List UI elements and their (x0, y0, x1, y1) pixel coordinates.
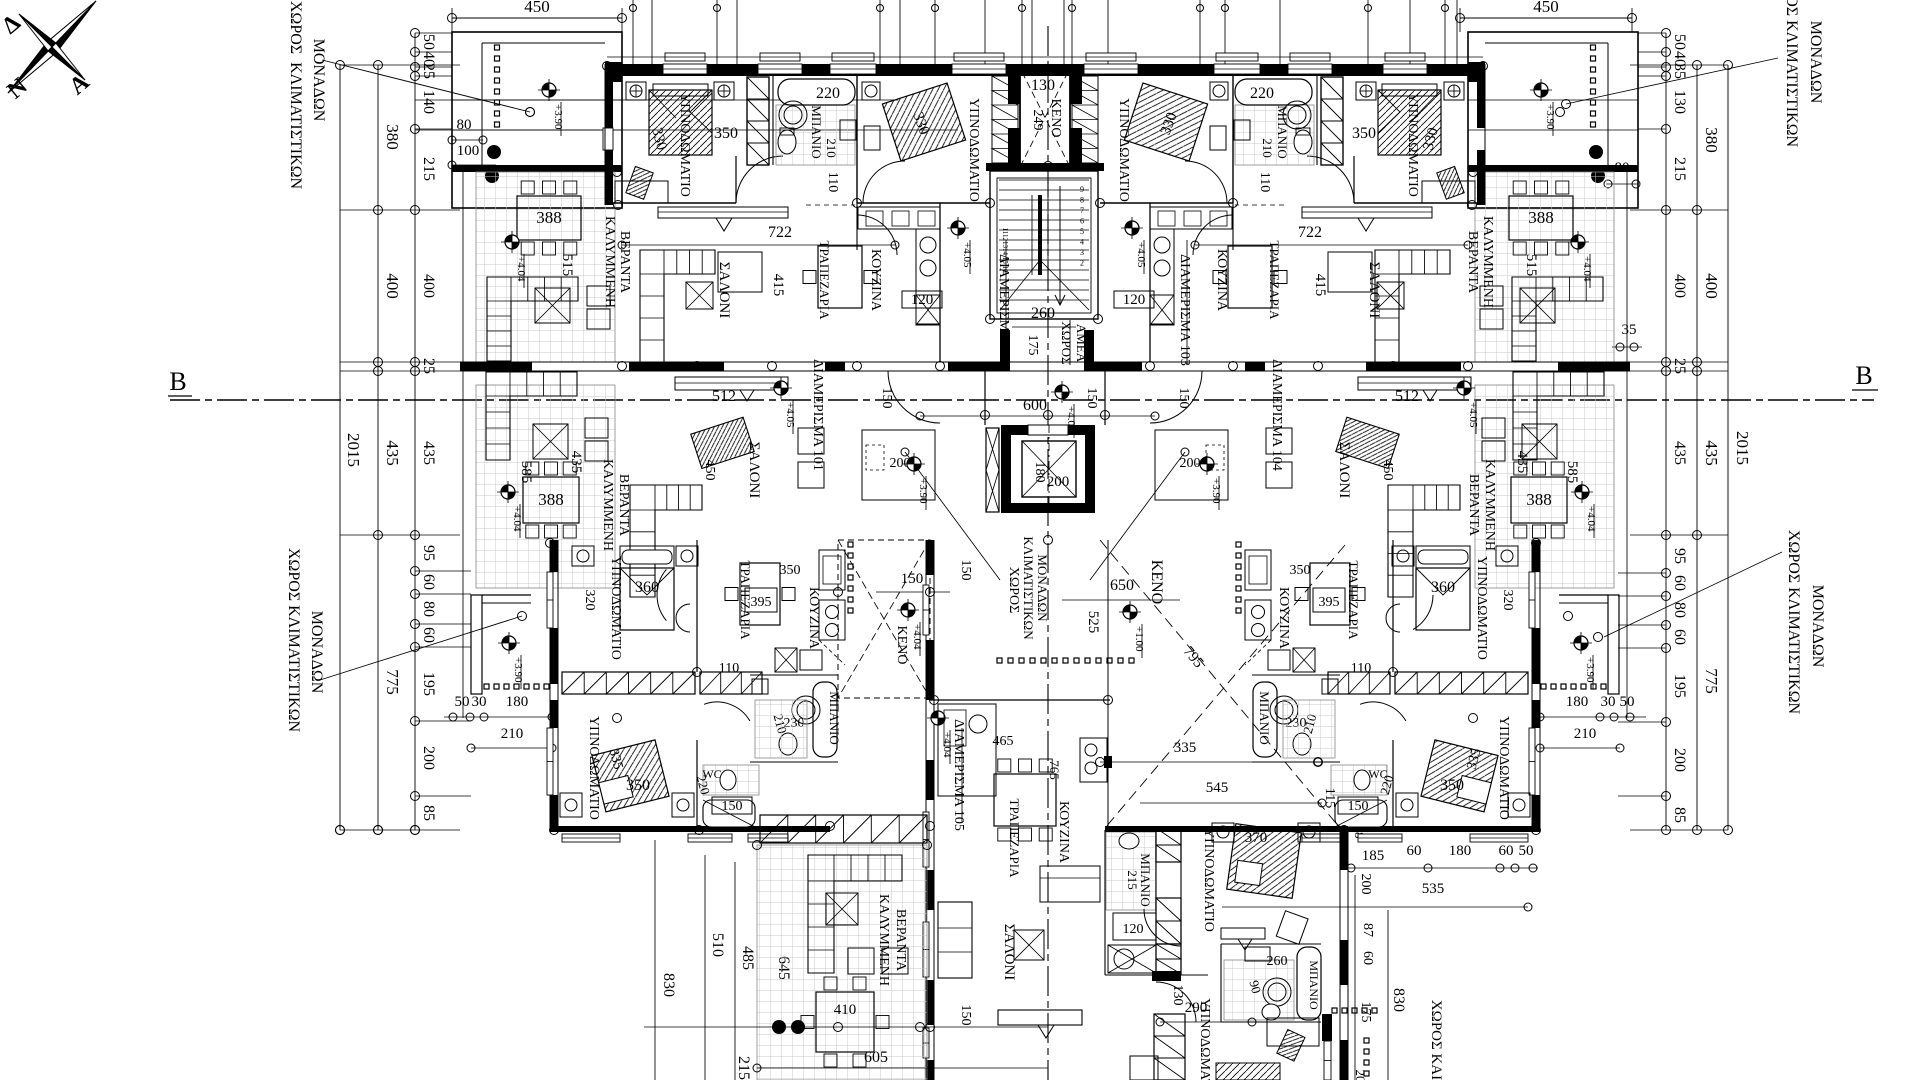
AC block bottom wall R (1468, 165, 1638, 172)
apt101 L tv wall 512 (675, 377, 788, 390)
svg-text:115: 115 (1322, 788, 1337, 808)
wc R (1252, 761, 1340, 763)
svg-text:388: 388 (1526, 490, 1552, 509)
black dots L (487, 145, 501, 159)
svg-text:85: 85 (1671, 807, 1688, 823)
svg-text:180: 180 (1449, 843, 1472, 859)
svg-text:ΔΙΑΜΕΡΙΣΜΑ 103: ΔΙΑΜΕΡΙΣΜΑ 103 (1177, 254, 1192, 366)
AC block bottom wall L (452, 165, 622, 172)
svg-text:+3.90: +3.90 (512, 657, 524, 683)
svg-text:50: 50 (420, 34, 437, 50)
svg-text:200: 200 (1358, 874, 1373, 895)
stair arrow (1055, 186, 1065, 305)
tv bench apt102 R (1302, 207, 1432, 218)
svg-text:585: 585 (1564, 461, 1580, 484)
bedroom-up R bedsides (1496, 546, 1518, 566)
svg-text:ΧΩΡΟΣ ΚΛΙΜΑΤΙΣΤΙΚΩΝ: ΧΩΡΟΣ ΚΛΙΜΑΤΙΣΤΙΚΩΝ (1783, 0, 1800, 148)
svg-text:+3.90: +3.90 (1210, 478, 1222, 504)
svg-text:ΚΟΥΖΙΝΑ: ΚΟΥΖΙΝΑ (868, 249, 883, 312)
arc doors bottom right (1144, 909, 1181, 946)
apt105 bed room divider (1105, 974, 1208, 976)
apt101 R art (1336, 417, 1399, 468)
svg-text:ΣΑΛΟΝΙ: ΣΑΛΟΝΙ (716, 262, 732, 318)
apt101 L art (691, 417, 754, 468)
svg-text:25: 25 (420, 358, 437, 374)
svg-text:ΚΑΛΥΜΜΕΝΗ: ΚΑΛΥΜΜΕΝΗ (602, 216, 617, 308)
kitchen L dim 120 box (902, 291, 942, 308)
bath1 L tiles (776, 105, 855, 165)
wardrobe R bedroom1 (1321, 77, 1343, 165)
svg-text:ΚΑΛΥΜΜΕΝΗ: ΚΑΛΥΜΜΕΝΗ (1482, 459, 1497, 551)
svg-text:ΥΠΝΟΔΩΜΑΤΙΟ: ΥΠΝΟΔΩΜΑΤΙΟ (1116, 98, 1131, 202)
vertical axis centre line (1047, 26, 1049, 1080)
apt105 bath small (1104, 830, 1106, 975)
svg-text:ΜΟΝΑΔΩΝ: ΜΟΝΑΔΩΝ (1035, 554, 1050, 622)
salon apt102 R sofa (1375, 250, 1450, 362)
svg-text:210: 210 (824, 138, 839, 158)
terrace upper L dining table 388 (517, 196, 581, 240)
svg-text:260: 260 (1031, 305, 1055, 322)
svg-text:350: 350 (780, 563, 801, 578)
wing bottom wall R (1260, 826, 1540, 832)
svg-text:130: 130 (1671, 90, 1688, 114)
bath1 R tub 220 (1235, 79, 1312, 105)
svg-text:120: 120 (1123, 292, 1146, 308)
svg-text:260: 260 (1267, 954, 1288, 969)
svg-text:80: 80 (420, 601, 437, 617)
bedroom1 L bedside tables (626, 82, 646, 100)
svg-text:6: 6 (1080, 217, 1084, 226)
svg-text:450: 450 (524, 0, 550, 16)
svg-text:ΥΠΝΟΔΩΜΑΤΙΟ: ΥΠΝΟΔΩΜΑΤΙΟ (1496, 716, 1511, 820)
svg-text:435: 435 (420, 441, 437, 465)
svg-text:150: 150 (1084, 388, 1099, 409)
svg-text:220: 220 (1250, 85, 1274, 102)
svg-text:110: 110 (1257, 172, 1272, 192)
svg-text:ΜΠΑΝΙΟ: ΜΠΑΝΙΟ (1275, 105, 1290, 158)
svg-text:110: 110 (719, 661, 739, 676)
right chain extenders (1630, 64, 1728, 66)
svg-text:2: 2 (1080, 259, 1084, 268)
svg-text:25: 25 (1671, 358, 1688, 374)
left gable wall (605, 64, 613, 128)
left chain 2015 label (336, 61, 345, 70)
entry wall y362 thick segments (460, 361, 1630, 363)
right chain A (1693, 61, 1702, 70)
AC terrace block top L (452, 32, 622, 208)
svg-text:ΜΟΝΑΔΩΝ: ΜΟΝΑΔΩΝ (1807, 21, 1824, 104)
wall junction node circles (618, 362, 627, 371)
svg-text:150: 150 (958, 1005, 973, 1026)
svg-text:ΚΕΝΟ: ΚΕΝΟ (1148, 560, 1165, 604)
stair hatch band left (992, 76, 1018, 163)
svg-text:370: 370 (1245, 830, 1268, 846)
svg-text:220: 220 (816, 85, 840, 102)
svg-text:130: 130 (1031, 77, 1055, 94)
stair cross line (1000, 260, 1040, 310)
svg-text:775: 775 (1702, 668, 1721, 694)
elevator shaft (1001, 425, 1095, 435)
bedroom-low L bed 350 (592, 740, 669, 812)
apt101 L near-core room 200 (862, 430, 935, 500)
terrace R mid wall stub (1558, 362, 1630, 371)
terrace upper L sofa (487, 277, 578, 361)
apt101 L sofa (630, 485, 702, 597)
svg-text:180: 180 (1566, 694, 1589, 710)
svg-text:ΚΑΛΥΜΜΕΝΗ: ΚΑΛΥΜΜΕΝΗ (1480, 216, 1495, 308)
terrace lower L dining table 388 (523, 477, 579, 523)
svg-text:B: B (169, 367, 186, 396)
level marker +3.90 block R (1534, 83, 1548, 97)
svg-text:140: 140 (420, 90, 437, 114)
svg-text:110: 110 (825, 172, 840, 192)
bedroom2 R bedside (1210, 82, 1228, 100)
terrace lower R tiles (1475, 385, 1614, 588)
svg-text:ΥΠΝΟΔΩΜΑΤΙΟ: ΥΠΝΟΔΩΜΑΤΙΟ (677, 93, 692, 197)
bath1 R shower circle (1283, 101, 1311, 129)
kitchen apt101 R column (1245, 550, 1271, 590)
svg-text:+4.04: +4.04 (941, 732, 953, 758)
svg-text:ΣΑΛΟΝΙ: ΣΑΛΟΝΙ (1001, 924, 1017, 980)
svg-text:87: 87 (1360, 923, 1375, 937)
bedroom1 R bottom wall and door (1354, 202, 1478, 204)
dim 150 box R (1338, 797, 1378, 814)
svg-text:435: 435 (568, 451, 584, 474)
terrace lower R dining table 388 (1511, 477, 1567, 523)
svg-text:ΒΕΡΑΝΤΑ: ΒΕΡΑΝΤΑ (893, 909, 908, 972)
svg-text:ΚΑΛΥΜΜΕΝΗ: ΚΑΛΥΜΜΕΝΗ (876, 894, 891, 986)
AC platform R (1608, 595, 1619, 694)
AC block corner wall stub R (1468, 62, 1485, 82)
dotted trail bottom right (1332, 1008, 1337, 1013)
svg-text:765: 765 (1047, 760, 1062, 780)
svg-text:ΥΠΝΟΔΩΜΑΤΙΟ: ΥΠΝΟΔΩΜΑΤΙΟ (1201, 828, 1216, 932)
dining L table (818, 246, 862, 308)
right chain 2015 label (1724, 61, 1733, 70)
svg-text:ΧΩΡΟΣ: ΧΩΡΟΣ (1006, 567, 1021, 614)
void dashed box left (838, 540, 930, 698)
svg-text:ΣΑΛΟΝΙ: ΣΑΛΟΝΙ (1366, 262, 1382, 318)
svg-text:ΣΑΛΟΝΙ: ΣΑΛΟΝΙ (746, 442, 762, 498)
svg-text:249: 249 (1030, 110, 1045, 131)
bedroom1 R desk and chair (1422, 181, 1475, 203)
wing divider wall R (1392, 540, 1394, 672)
svg-text:ΧΩΡΟΣ ΚΑΙ: ΧΩΡΟΣ ΚΑΙ (1428, 1000, 1444, 1080)
center platform dotted row (997, 658, 1002, 663)
svg-text:350: 350 (1352, 125, 1376, 142)
svg-text:830: 830 (660, 973, 677, 997)
bedroom-up L bed 360 (620, 546, 674, 568)
bedroom1 R bedside tables (1444, 82, 1464, 100)
terrace upper R glass table (1520, 288, 1555, 323)
svg-text:+1.00: +1.00 (1133, 626, 1145, 652)
right dim chain vertical lines (1665, 33, 1667, 830)
svg-text:215: 215 (1125, 870, 1140, 890)
svg-text:ΣΑΛΟΝΙ: ΣΑΛΟΝΙ (1336, 442, 1352, 498)
svg-text:150: 150 (722, 799, 743, 814)
svg-text:185: 185 (1362, 848, 1385, 864)
terrace upper R plants (1480, 286, 1503, 306)
svg-text:9: 9 (1080, 185, 1084, 194)
svg-text:95: 95 (420, 545, 437, 561)
left chain B (411, 29, 420, 38)
corridor walls L (939, 203, 941, 362)
svg-text:600: 600 (1023, 397, 1047, 414)
svg-text:7: 7 (1080, 206, 1084, 215)
terrace lower L sofa (486, 372, 577, 460)
wing outer sills R (1529, 572, 1535, 628)
svg-text:195: 195 (1671, 674, 1688, 698)
svg-text:ΧΩΡΟΣ ΚΛΙΜΑΤΙΣΤΙΚΩΝ: ΧΩΡΟΣ ΚΛΙΜΑΤΙΣΤΙΚΩΝ (1785, 530, 1802, 715)
svg-text:20: 20 (1353, 1070, 1368, 1080)
kitchen apt101 L column (819, 550, 845, 590)
svg-text:512: 512 (712, 388, 736, 405)
wing outer sills L (547, 572, 553, 628)
svg-text:2015: 2015 (1733, 431, 1752, 465)
terrace upper R sofa (1512, 277, 1603, 361)
svg-text:120: 120 (1123, 922, 1144, 937)
terrace upper R dining table 388 (1509, 196, 1573, 240)
apt105 right wall (1340, 830, 1348, 870)
svg-text:830: 830 (1390, 988, 1407, 1012)
dim 150 box L (712, 797, 752, 814)
dining R table (1228, 246, 1272, 308)
svg-text:ΤΡΑΠΕΖΑΡΙΑ: ΤΡΑΠΕΖΑΡΙΑ (1267, 241, 1282, 321)
svg-text:ΚΑΛΥΜΜΕΝΗ: ΚΑΛΥΜΜΕΝΗ (600, 459, 615, 551)
terrace upper L glass table (535, 288, 570, 323)
svg-text:80: 80 (1671, 602, 1688, 618)
svg-text:360: 360 (1431, 579, 1455, 596)
AC terrace block top R (1468, 32, 1638, 208)
bath apt101 R (1253, 682, 1277, 757)
svg-text:535: 535 (1422, 881, 1445, 897)
svg-text:120: 120 (911, 292, 934, 308)
level marker +4.05 L (951, 221, 965, 235)
black dots R (1589, 145, 1603, 159)
shower box R (1335, 800, 1387, 827)
bath1 R tiles (1235, 105, 1314, 165)
svg-text:395: 395 (1319, 595, 1340, 610)
bath1 R walls (1316, 76, 1318, 165)
svg-text:380: 380 (1702, 127, 1721, 153)
svg-text:512: 512 (1395, 388, 1419, 405)
svg-text:+3.90: +3.90 (1544, 104, 1556, 130)
svg-text:450: 450 (1533, 0, 1559, 16)
shower box L (703, 800, 755, 827)
svg-text:35: 35 (1622, 322, 1637, 338)
svg-text:60: 60 (1499, 843, 1514, 859)
svg-text:150: 150 (958, 560, 973, 581)
svg-text:ΚΕΝΟ: ΚΕΝΟ (1048, 99, 1063, 138)
section line B-B (170, 399, 1874, 401)
svg-text:515: 515 (559, 254, 575, 277)
svg-text:175: 175 (1358, 1002, 1373, 1023)
stair landing wall (986, 163, 1104, 171)
svg-text:350: 350 (1290, 563, 1311, 578)
svg-text:400: 400 (420, 274, 437, 298)
svg-text:585: 585 (518, 461, 534, 484)
bedroom1 L bed (649, 90, 712, 155)
svg-text:350: 350 (714, 125, 738, 142)
dotted squares col R (1591, 45, 1596, 50)
bedroom-up R bed 360 (1416, 546, 1470, 568)
svg-text:ΥΠΝΟΔΩΜΑΤΙΟ: ΥΠΝΟΔΩΜΑΤΙΟ (1405, 93, 1420, 197)
svg-text:215: 215 (420, 157, 437, 181)
svg-text:410: 410 (834, 1002, 857, 1018)
svg-text:210: 210 (1574, 726, 1597, 742)
svg-text:ΒΕΡΑΝΤΑ: ΒΕΡΑΝΤΑ (1466, 474, 1481, 537)
top wall black band (607, 64, 1483, 76)
svg-text:50: 50 (1671, 34, 1688, 50)
svg-text:180: 180 (1032, 462, 1047, 483)
apt105 left wall (926, 540, 934, 575)
bedroom-low R bedsides (1508, 793, 1530, 817)
bedroom-up L bedsides (572, 546, 594, 566)
terrace lower R glass table (1522, 424, 1557, 459)
svg-text:ΧΩΡΟΣ ΚΛΙΜΑΤΙΣΤΙΚΩΝ: ΧΩΡΟΣ ΚΛΙΜΑΤΙΣΤΙΚΩΝ (285, 548, 302, 733)
svg-text:388: 388 (538, 490, 564, 509)
svg-text:360: 360 (635, 579, 659, 596)
svg-text:510: 510 (709, 933, 726, 957)
bottom right wall step (1322, 1014, 1332, 1041)
svg-text:400: 400 (1671, 274, 1688, 298)
corridor walls R (1149, 203, 1151, 362)
apt101 wing wall y675 L (750, 674, 838, 676)
svg-text:150: 150 (879, 388, 894, 409)
salon R plant (1377, 282, 1404, 309)
svg-text:320: 320 (1500, 590, 1515, 611)
top extension lines (632, 0, 634, 64)
svg-text:+4.04: +4.04 (515, 256, 527, 282)
terrace 105 tiles (757, 845, 927, 1080)
svg-text:450: 450 (702, 460, 717, 481)
bath1 L toilet (778, 130, 796, 154)
svg-text:380: 380 (383, 124, 402, 150)
svg-text:435: 435 (1702, 440, 1721, 466)
compass rose (52, 1, 96, 52)
svg-text:350: 350 (626, 777, 650, 794)
svg-text:3: 3 (1080, 248, 1084, 257)
bath apt101 L (813, 682, 837, 757)
svg-text:ΜΠΑΝΙΟ: ΜΠΑΝΙΟ (809, 105, 824, 158)
entry doors arcs (888, 371, 940, 423)
svg-text:+4.05: +4.05 (1467, 402, 1479, 428)
washer box R (1293, 648, 1315, 672)
terrace 105 table 410 (816, 992, 874, 1052)
svg-text:ΒΕΡΑΝΤΑ: ΒΕΡΑΝΤΑ (1465, 231, 1480, 294)
svg-text:ΜΟΝΑΔΩΝ: ΜΟΝΑΔΩΝ (308, 611, 325, 694)
stair void shaft KENO 249 (1020, 70, 1070, 165)
svg-text:+3.90: +3.90 (1584, 657, 1596, 683)
svg-text:60: 60 (1671, 629, 1688, 645)
svg-text:ΥΠΝΟΔΩΜΑΤΙΟ: ΥΠΝΟΔΩΜΑΤΙΟ (586, 716, 601, 820)
kitchen R dim 120 box (1114, 291, 1154, 308)
apt105 bath2 (1220, 944, 1222, 1022)
svg-text:415: 415 (1312, 274, 1328, 297)
bedroom2 L bottom wall (857, 202, 990, 204)
svg-text:30: 30 (472, 694, 487, 710)
top dim 450 right (1460, 17, 1632, 19)
wardrobe L bedroom1 (747, 77, 769, 165)
svg-text:80: 80 (457, 117, 472, 133)
terrace L mid wall stub (460, 362, 532, 371)
svg-text:+3.90: +3.90 (552, 104, 564, 130)
svg-text:+4.05: +4.05 (1135, 242, 1147, 268)
svg-text:435: 435 (1671, 441, 1688, 465)
svg-text:335: 335 (1174, 740, 1197, 756)
stairwell box (990, 171, 1098, 319)
svg-text:60: 60 (420, 627, 437, 643)
svg-text:100: 100 (457, 143, 480, 159)
apt105 tv bench2 (1221, 928, 1265, 939)
terrace lower R sofa (1513, 372, 1604, 460)
dining apt101 R table 395 (1310, 563, 1350, 625)
right chain B (1662, 29, 1671, 38)
left dim chain vertical lines (339, 65, 341, 830)
svg-text:175: 175 (1025, 335, 1040, 356)
stair treads (999, 179, 1089, 181)
svg-text:350: 350 (1440, 777, 1464, 794)
svg-text:+4.04: +4.04 (1581, 256, 1593, 282)
svg-text:200: 200 (1671, 748, 1688, 772)
svg-text:485: 485 (739, 946, 756, 970)
svg-text:400: 400 (1702, 273, 1721, 299)
svg-text:775: 775 (383, 669, 402, 695)
svg-text:ΚΛΙΜΑΤΙΣΤΙΚΩΝ: ΚΛΙΜΑΤΙΣΤΙΚΩΝ (1021, 536, 1036, 640)
wing door arcs L (657, 569, 666, 620)
svg-text:200: 200 (1180, 456, 1201, 471)
elevator side duct (986, 428, 999, 512)
svg-text:465: 465 (993, 734, 1014, 749)
svg-text:60: 60 (1407, 843, 1422, 859)
svg-text:ΤΡΑΠΕΖΑΡΙΑ: ΤΡΑΠΕΖΑΡΙΑ (738, 561, 753, 641)
svg-text:ΚΕΝΟ: ΚΕΝΟ (894, 626, 909, 665)
svg-text:ΤΡΑΠΕΖΑΡΙΑ: ΤΡΑΠΕΖΑΡΙΑ (817, 241, 832, 321)
level marker +3.90 block L (542, 83, 556, 97)
apt101 R tv wall 512 (1358, 377, 1471, 390)
wing bottom wall L (550, 826, 830, 832)
svg-text:150: 150 (1176, 388, 1191, 409)
svg-text:ΚΟΥΖΙΝΑ: ΚΟΥΖΙΝΑ (1056, 801, 1071, 864)
salon L plant (686, 282, 713, 309)
bath1 R sink (1234, 120, 1250, 140)
terrace upper L tiles (476, 172, 615, 362)
svg-text:+4.04: +4.04 (1585, 506, 1597, 532)
bath1 L sink (840, 120, 856, 140)
svg-text:435: 435 (383, 440, 402, 466)
black dots bottom terrace (644, 1026, 1048, 1028)
svg-text:515: 515 (1523, 254, 1539, 277)
svg-text:722: 722 (768, 224, 792, 241)
hatch block below-center (797, 1060, 897, 1080)
svg-text:85: 85 (420, 805, 437, 821)
top facade line (607, 56, 1483, 58)
svg-text:ΥΠΝΟΔΩΜΑΤΙΟ: ΥΠΝΟΔΩΜΑΤΙΟ (1474, 556, 1489, 660)
svg-text:605: 605 (864, 1049, 888, 1066)
svg-text:B: B (1855, 361, 1872, 390)
svg-text:ΜΟΝΑΔΩΝ: ΜΟΝΑΔΩΝ (310, 39, 327, 122)
svg-text:50: 50 (1519, 843, 1534, 859)
wardrobe sawtooth L (562, 672, 695, 694)
bath1 L walls (772, 76, 774, 165)
svg-text:200: 200 (1047, 474, 1070, 490)
closet sawtooth apt105 (1156, 828, 1181, 862)
dotted squares col L (495, 45, 500, 50)
svg-text:388: 388 (536, 208, 562, 227)
apt105 fridge bench (1040, 866, 1100, 902)
svg-text:ΜΠΑΝΙΟ: ΜΠΑΝΙΟ (1307, 960, 1321, 1010)
svg-text:435: 435 (1514, 451, 1530, 474)
